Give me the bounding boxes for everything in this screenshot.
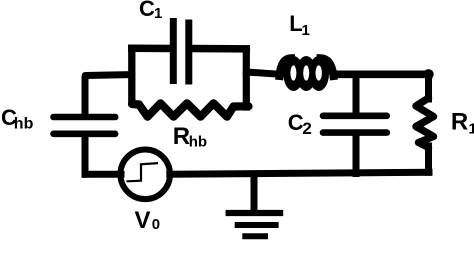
RC block right edge wire — [243, 49, 250, 107]
svg-text:hb: hb — [189, 134, 207, 151]
svg-text:hb: hb — [14, 115, 34, 132]
inductor L1 — [280, 56, 334, 91]
capacitor C_hb — [54, 117, 116, 134]
svg-text:1: 1 — [154, 5, 162, 22]
svg-text:C: C — [139, 0, 155, 21]
label R_hb — [173, 123, 207, 151]
RC block left edge wire — [128, 48, 135, 100]
capacitor C1 — [173, 22, 189, 82]
RC block top edge wire (C1 to right edge) — [192, 45, 247, 53]
wire RC block to inductor — [246, 72, 279, 74]
label R1 — [451, 109, 474, 138]
wire top-left from Chb up to RC block left edge — [85, 75, 132, 115]
svg-text:1: 1 — [469, 120, 474, 137]
node junction top-right corner — [423, 69, 433, 79]
wire C2 bottom to rail — [353, 136, 360, 174]
wire Chb bottom to rail — [82, 136, 89, 174]
label V0 — [135, 207, 161, 234]
label L1 — [289, 11, 310, 39]
RC block top edge wire (left part to C1) — [132, 45, 170, 53]
svg-text:1: 1 — [302, 22, 310, 39]
wire inductor to top-right corner — [334, 71, 429, 79]
ground — [226, 175, 284, 236]
resistor R1 — [416, 98, 434, 148]
wire bottom rail right segment — [170, 172, 429, 174]
label C2 — [288, 110, 312, 138]
svg-text:V: V — [135, 207, 151, 234]
capacitor C2 — [323, 116, 387, 133]
wire C2 top — [353, 74, 360, 114]
svg-text:0: 0 — [152, 216, 160, 233]
label C_hb — [1, 105, 34, 132]
svg-text:C: C — [288, 110, 304, 135]
svg-text:R: R — [451, 109, 468, 136]
wire right branch top — [425, 74, 432, 99]
svg-text:R: R — [173, 123, 190, 150]
resistor R_hb — [132, 103, 249, 116]
voltage source V0 — [120, 150, 170, 200]
wire bottom rail left segment — [85, 171, 121, 178]
svg-text:2: 2 — [302, 119, 311, 138]
label C1 — [139, 0, 162, 22]
wire right branch bottom — [425, 146, 432, 172]
